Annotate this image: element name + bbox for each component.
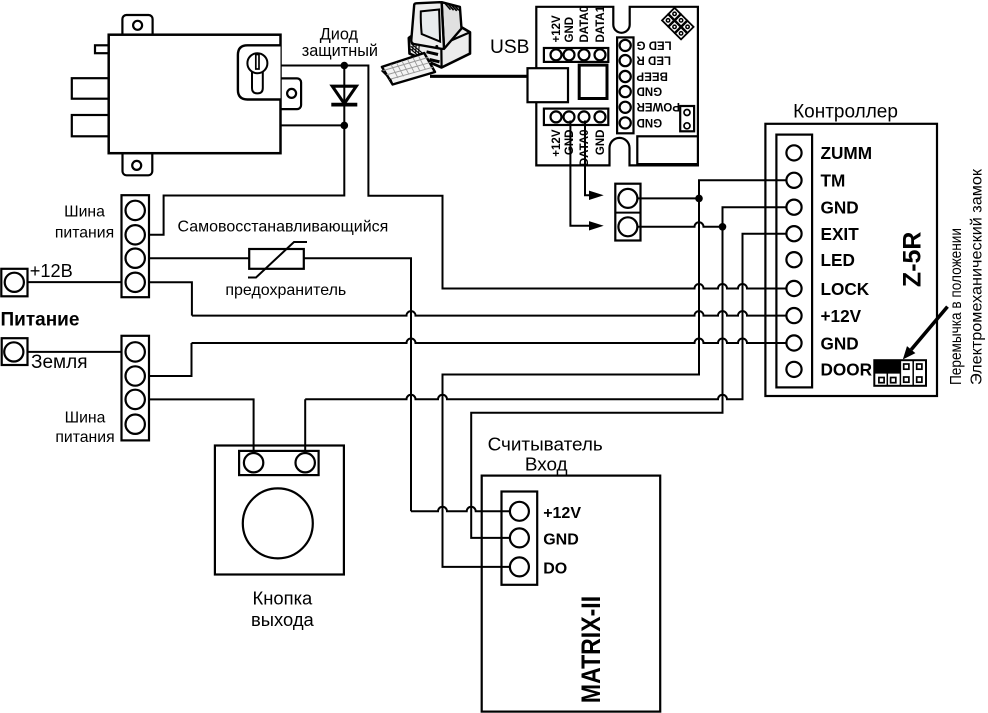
- svg-text:Кнопка: Кнопка: [253, 587, 314, 608]
- svg-text:GND: GND: [543, 532, 579, 549]
- svg-text:LED G: LED G: [636, 38, 671, 50]
- svg-text:Шина: Шина: [65, 410, 106, 427]
- svg-text:GND: GND: [564, 17, 576, 43]
- svg-text:Электромеханический замок: Электромеханический замок: [969, 168, 986, 385]
- svg-text:GND: GND: [821, 333, 859, 353]
- svg-text:выхода: выхода: [251, 609, 315, 630]
- svg-text:USB: USB: [490, 37, 529, 58]
- svg-text:BEEP: BEEP: [636, 69, 668, 81]
- svg-text:+12В: +12В: [30, 261, 73, 281]
- svg-text:LOCK: LOCK: [821, 279, 870, 299]
- svg-text:TM: TM: [821, 171, 846, 191]
- svg-text:+12V: +12V: [543, 505, 581, 522]
- svg-text:DOOR: DOOR: [821, 360, 873, 380]
- svg-text:GND: GND: [637, 85, 663, 97]
- svg-text:Самовосстанавливающийся: Самовосстанавливающийся: [177, 219, 388, 236]
- svg-text:Земля: Земля: [31, 352, 87, 373]
- svg-text:Считыватель: Считыватель: [488, 435, 603, 456]
- svg-text:Вход: Вход: [525, 454, 568, 475]
- svg-text:Перемычка в положении: Перемычка в положении: [948, 228, 965, 385]
- svg-text:ZUMM: ZUMM: [821, 143, 873, 163]
- svg-text:предохранитель: предохранитель: [225, 282, 346, 299]
- svg-text:+12V: +12V: [551, 129, 563, 157]
- svg-text:Z-5R: Z-5R: [898, 232, 926, 288]
- svg-text:+12V: +12V: [821, 306, 862, 326]
- svg-text:LED R: LED R: [636, 54, 671, 66]
- svg-text:Шина: Шина: [64, 204, 105, 221]
- svg-text:питания: питания: [55, 224, 114, 241]
- svg-text:Контроллер: Контроллер: [793, 102, 898, 123]
- svg-text:EXIT: EXIT: [821, 224, 860, 244]
- svg-text:LED: LED: [821, 250, 855, 270]
- svg-text:MATRIX-II: MATRIX-II: [576, 596, 606, 703]
- svg-text:GND: GND: [595, 130, 607, 156]
- svg-text:Питание: Питание: [1, 310, 80, 331]
- svg-text:DATA1: DATA1: [595, 5, 607, 42]
- svg-text:POWER: POWER: [636, 100, 680, 112]
- svg-text:GND: GND: [637, 116, 663, 128]
- svg-text:питания: питания: [55, 429, 114, 446]
- svg-text:защитный: защитный: [302, 42, 378, 60]
- svg-text:DO: DO: [543, 561, 567, 578]
- svg-text:DATA0: DATA0: [579, 6, 591, 43]
- svg-text:+12V: +12V: [551, 15, 563, 43]
- svg-text:Диод: Диод: [320, 26, 359, 44]
- svg-text:GND: GND: [821, 198, 859, 218]
